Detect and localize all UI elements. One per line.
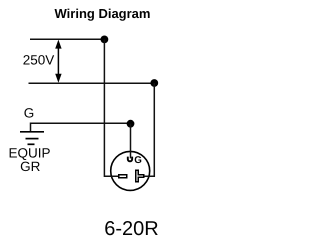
wire: right vertical drop from node B to receptacle right slot [144,83,154,176]
svg-text:G: G [134,155,142,166]
right hot slot (sideways T shape) [136,170,144,182]
node B (junction dot right) [150,79,158,87]
svg-text:GR: GR [20,159,41,174]
svg-text:6-20R: 6-20R [104,218,158,240]
svg-text:250V: 250V [23,52,55,67]
svg-text:Wiring Diagram: Wiring Diagram [55,6,151,21]
left neutral slot (horizontal rectangle) [119,175,127,178]
wire: ground wire from ground symbol to node C [31,123,131,131]
dimension arrow 250V (double-headed) [57,44,59,78]
ground pin slot (U shape) [128,157,132,162]
receptacle U1 (6-20R) body circle [111,151,150,190]
wire: top horizontal line (L1) [30,38,104,40]
wire: left vertical drop from node A to receptacle left slot [104,39,119,176]
wire: vertical drop from node C to ground pin of receptacle [130,124,132,159]
ground symbol (earth, 3 bars) [20,131,44,133]
svg-text:G: G [24,106,35,121]
node A (junction dot top) [101,36,109,44]
wire: second horizontal line (L2) [29,82,155,84]
node C (junction dot on ground wire) [127,120,135,128]
